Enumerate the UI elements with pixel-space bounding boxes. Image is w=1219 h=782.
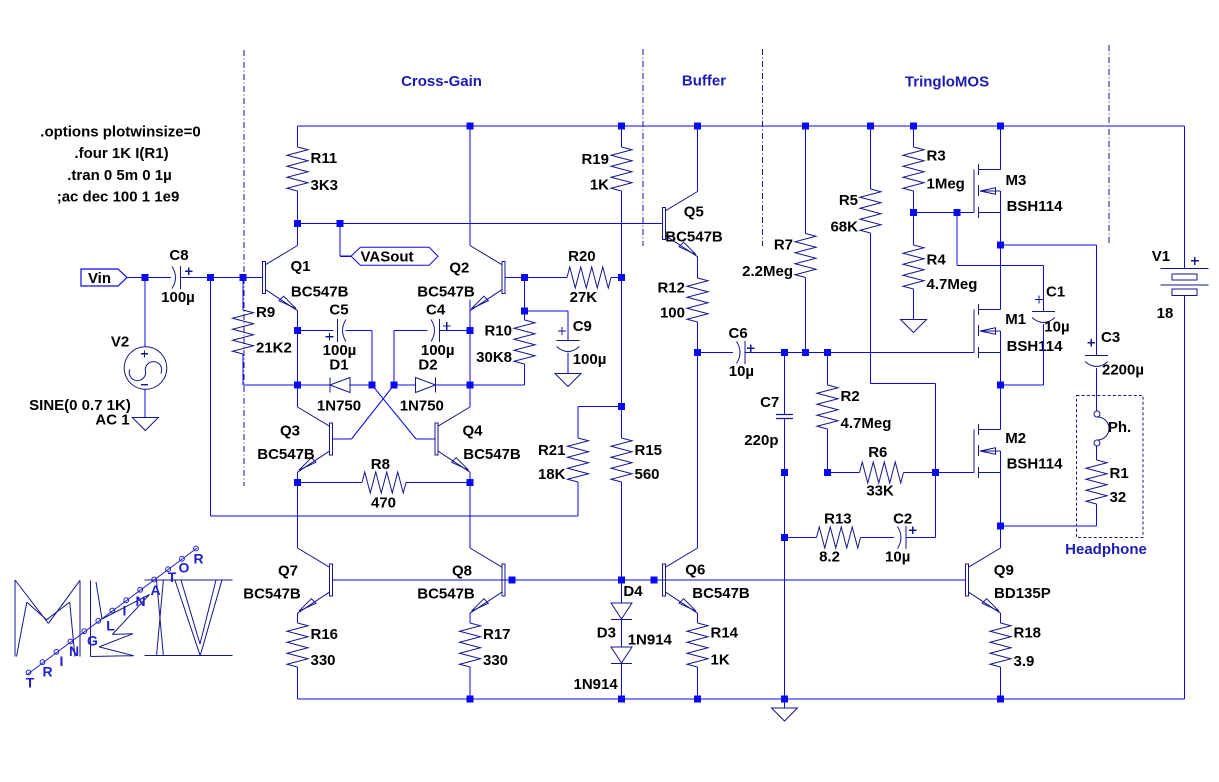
wire [297,331,299,386]
junction [618,123,625,130]
wire [621,620,623,648]
svg-text:Cross-Gain: Cross-Gain [401,73,482,90]
wire [784,353,786,415]
net flag Vin [81,269,127,287]
resistor R20 [567,248,611,306]
wire M3 gate line [914,212,975,214]
svg-text:N: N [135,593,145,609]
wire [469,667,471,699]
resistor R18 [990,623,1041,670]
wire [242,278,244,311]
svg-text:C7: C7 [760,394,779,411]
svg-text:Buffer: Buffer [682,73,726,90]
ground [132,418,158,431]
junction [802,349,809,356]
svg-text:BD135P: BD135P [994,585,1051,602]
svg-text:R19: R19 [581,151,609,168]
wire [469,472,471,482]
svg-text:BC547B: BC547B [692,585,750,602]
resistor R15 [611,438,662,483]
wire [371,331,373,386]
svg-text:1N914: 1N914 [573,676,618,693]
resistor R17 [460,623,511,669]
wire [1000,191,1002,310]
junction [781,696,788,703]
svg-text:BC547B: BC547B [291,284,349,301]
svg-text:.four 1K I(R1): .four 1K I(R1) [74,145,168,162]
wire [1000,613,1002,623]
wire [181,277,263,279]
svg-text:560: 560 [635,466,660,483]
resistor R9 [233,304,292,357]
svg-text:Q3: Q3 [280,423,300,440]
transistor Q9 [966,548,1051,613]
wire [936,472,975,474]
mosfet M1 [974,304,1063,358]
svg-text:C3: C3 [1101,329,1120,346]
wire [785,537,817,539]
ground [555,374,581,387]
svg-text:I: I [123,603,127,619]
svg-text:BC547B: BC547B [665,228,723,245]
junction [391,382,398,389]
svg-text:R15: R15 [635,442,663,459]
wire [469,126,471,246]
transistor Q8 [417,548,505,613]
wire [697,667,699,699]
svg-text:.options plotwinsize=0: .options plotwinsize=0 [40,124,200,141]
wire [393,331,395,386]
svg-text:100µ: 100µ [161,289,195,306]
svg-text:R20: R20 [568,248,596,265]
wire [406,482,470,484]
svg-text:1Meg: 1Meg [927,175,965,192]
wire [297,613,299,623]
wire [913,213,915,246]
transistor Q5 [663,192,723,257]
wire [784,538,786,700]
svg-text:R: R [193,551,203,567]
transistor Q3 [257,407,332,472]
svg-text:BC547B: BC547B [257,446,315,463]
svg-text:Q5: Q5 [684,204,704,221]
junction [509,577,516,584]
junction [618,696,625,703]
svg-text:10µ: 10µ [1044,319,1069,336]
wire [297,547,299,549]
svg-text:L: L [106,618,115,634]
svg-text:T: T [168,569,177,585]
svg-text:220p: 220p [744,432,778,449]
wire [505,277,525,279]
junction [932,469,939,476]
capacitor C9 [557,318,607,368]
svg-text:10µ: 10µ [729,363,754,380]
svg-text:O: O [179,560,190,576]
junction [369,382,376,389]
wire [784,473,786,538]
junction [781,349,788,356]
wire [297,191,299,224]
junction [910,123,917,130]
wire output base line [333,579,966,581]
diode D1 [317,357,361,415]
resistor R11 [287,147,338,194]
wire [621,580,623,603]
wire top supply rail [298,125,1185,127]
junction [781,469,788,476]
svg-text:D2: D2 [418,357,437,374]
svg-text:1N750: 1N750 [400,398,444,415]
wire [621,191,623,278]
wire [469,331,471,386]
svg-text:18: 18 [1157,305,1174,322]
wire [394,330,428,332]
svg-text:470: 470 [371,494,396,511]
svg-text:M3: M3 [1005,172,1026,189]
junction [521,308,528,315]
capacitor C5 [323,302,357,360]
headphone jack Ph. [1094,411,1131,446]
svg-text:27K: 27K [570,289,598,306]
svg-text:BC547B: BC547B [463,446,521,463]
svg-text:Q6: Q6 [685,561,705,578]
svg-text:BSH114: BSH114 [1007,456,1064,473]
wire [621,407,623,439]
svg-text:3.9: 3.9 [1014,653,1035,670]
wire [524,278,526,312]
junction [824,349,831,356]
svg-text:D3: D3 [597,625,616,642]
wire [621,482,623,580]
junction [618,577,625,584]
svg-text:R16: R16 [311,626,339,643]
svg-text:3K3: 3K3 [311,177,339,194]
junction [802,123,809,130]
svg-text:R1: R1 [1110,465,1129,482]
node Vin junction [142,274,149,281]
resistor R16 [287,623,338,669]
wire [1096,368,1098,411]
junction [294,220,301,227]
wire [1000,385,1002,430]
junction [651,577,658,584]
wire [935,384,937,538]
wire [211,515,579,517]
net flag VASout [351,247,438,265]
svg-text:100: 100 [660,304,685,321]
wire [469,300,471,331]
capacitor C3 [1085,329,1144,379]
headphone enclosure box [1077,396,1144,538]
wire [339,224,341,257]
junction [694,349,701,356]
wire [144,389,146,418]
svg-text:Q9: Q9 [994,562,1014,579]
diode D3 [573,625,632,693]
resistor R1 [1086,460,1129,506]
logo MK IV artwork [15,580,232,657]
svg-text:R17: R17 [483,626,511,643]
capacitor C7 [744,394,793,449]
wire [697,322,699,353]
svg-text:32: 32 [1110,489,1127,506]
voltage source V1 [1152,248,1209,322]
junction [618,403,625,410]
wire [913,289,915,320]
resistor R12 [657,278,708,322]
svg-text:R18: R18 [1014,624,1042,641]
wire [827,429,829,473]
junction [467,123,474,130]
svg-text:Q2: Q2 [449,259,469,276]
resistor R7 [742,234,816,281]
junction [207,274,214,281]
svg-text:Q4: Q4 [462,423,483,440]
svg-text:Q1: Q1 [290,258,310,275]
wire [524,364,526,385]
junction [997,123,1004,130]
wire [1184,296,1186,699]
wire [906,537,936,539]
svg-text:;ac dec 100 1 1e9: ;ac dec 100 1 1e9 [57,189,180,206]
resistor R13 [817,510,861,565]
logo TRINGLINATOR letters [26,551,204,691]
wire [697,126,699,192]
svg-text:4.7Meg: 4.7Meg [927,276,978,293]
svg-text:BSH114: BSH114 [1007,338,1064,355]
svg-text:A: A [150,582,160,598]
svg-text:Q8: Q8 [452,563,472,580]
svg-text:330: 330 [311,652,336,669]
svg-text:100µ: 100µ [573,351,607,368]
svg-text:30K8: 30K8 [476,349,512,366]
wire [297,483,299,549]
resistor R21 [538,438,589,483]
junction [294,479,301,486]
svg-text:M2: M2 [1005,430,1026,447]
resistor R5 [830,189,881,235]
wire bottom ground rail [298,698,1185,700]
wire [1043,324,1045,385]
wire [297,472,299,482]
diode D4 [611,583,673,649]
svg-text:2200µ: 2200µ [1102,362,1144,379]
junction [997,242,1004,249]
wire [784,419,786,473]
transistor Q7 [243,548,332,613]
wire [697,353,699,549]
wire [567,311,569,341]
svg-text:V1: V1 [1152,248,1170,265]
svg-text:R9: R9 [256,304,275,321]
wire [440,330,471,332]
svg-text:Q7: Q7 [278,563,298,580]
svg-text:68K: 68K [830,218,858,235]
transistor Q2 [417,246,505,311]
resistor R10 [476,320,535,366]
wire [524,311,526,320]
svg-text:Ph.: Ph. [1108,419,1131,436]
wire [469,483,471,549]
junction [954,209,961,216]
svg-text:G: G [87,633,98,649]
wire [144,278,146,347]
wire [297,385,299,407]
ground [901,320,927,333]
resistor R14 [687,623,739,669]
junction [997,523,1004,530]
wire [621,126,623,147]
wire [870,233,872,384]
svg-text:4.7Meg: 4.7Meg [841,415,892,432]
voltage source V2 [29,334,167,429]
junction [781,534,788,541]
wire [698,352,734,354]
wire [525,277,568,279]
svg-text:M1: M1 [1005,311,1026,328]
wire [297,311,299,331]
wire [127,277,171,279]
svg-text:C1: C1 [1046,284,1065,301]
wire [904,472,936,474]
svg-text:R3: R3 [927,148,946,165]
wire [697,257,699,278]
svg-text:R5: R5 [839,192,858,209]
wire [1096,446,1098,460]
wire [870,126,872,189]
wire [416,438,435,440]
svg-text:C8: C8 [169,247,188,264]
junction [294,382,301,389]
section separator line 2 [642,49,644,246]
wire [621,664,623,700]
wire [525,310,569,312]
svg-text:.tran 0 5m 0 1µ: .tran 0 5m 0 1µ [67,167,172,184]
junction [467,696,474,703]
svg-text:R11: R11 [311,150,338,167]
wire [298,330,334,332]
resistor R6 [860,444,904,500]
svg-text:33K: 33K [866,483,894,500]
svg-text:BC547B: BC547B [417,284,475,301]
capacitor C8 [161,247,195,306]
section separator line 1 [243,50,245,486]
svg-text:C4: C4 [426,302,446,319]
svg-text:R12: R12 [657,279,685,296]
wire [578,406,622,408]
svg-text:Vin: Vin [88,270,111,287]
wire [394,384,416,386]
wire [745,352,785,354]
wire [913,126,915,147]
wire [1001,525,1097,527]
capacitor C6 [729,325,755,380]
svg-text:R2: R2 [841,388,860,405]
wire VAS node [298,223,663,225]
svg-text:1N750: 1N750 [317,398,361,415]
wire [827,353,829,386]
wire [1001,244,1097,246]
svg-text:1N914: 1N914 [628,632,673,649]
transistor Q6 [663,548,750,613]
wire [697,613,699,623]
svg-text:R8: R8 [371,456,390,473]
svg-text:BC547B: BC547B [243,586,301,603]
junction [521,274,528,281]
junction [618,274,625,281]
svg-text:R: R [42,664,52,680]
wire [654,579,663,581]
svg-text:1K: 1K [590,177,609,194]
wire [470,384,525,386]
junction [694,123,701,130]
junction [467,479,474,486]
junction [997,382,1004,389]
svg-text:21K2: 21K2 [256,340,292,357]
wire [1043,266,1045,312]
junction [294,327,301,334]
junction [337,220,344,227]
svg-text:Headphone: Headphone [1065,541,1147,558]
wire [333,438,352,440]
wire [567,353,569,374]
svg-text:R21: R21 [538,442,566,459]
diode D2 [400,357,444,415]
wire [1001,384,1044,386]
svg-text:R6: R6 [868,444,887,461]
svg-text:18K: 18K [538,466,566,483]
mosfet M3 [974,164,1063,218]
resistor R19 [581,147,632,194]
svg-text:C9: C9 [573,318,592,335]
junction [694,696,701,703]
wire [871,383,936,385]
svg-text:D1: D1 [329,357,348,374]
resistor R3 [903,147,965,192]
logo banner line [26,546,198,675]
wire [621,278,623,407]
junction [910,209,917,216]
ground [772,708,798,721]
svg-text:8.2: 8.2 [819,549,840,566]
svg-text:R7: R7 [774,237,793,254]
svg-text:V2: V2 [111,334,129,351]
svg-text:BSH114: BSH114 [1007,198,1064,215]
wire [828,472,860,474]
wire [298,384,331,386]
junction [467,382,474,389]
svg-text:R14: R14 [711,625,739,642]
wire [340,255,351,257]
wire [1000,331,1002,385]
wire [1000,126,1002,170]
junction [997,696,1004,703]
svg-text:N: N [69,643,79,659]
wire [1000,451,1002,526]
wire [957,265,1044,267]
svg-text:10µ: 10µ [885,549,910,566]
resistor R8 [362,456,406,511]
wire [469,385,471,407]
wire [805,126,807,234]
mosfet M2 [974,424,1063,478]
section separator line 4 [1108,45,1110,244]
wire [784,699,786,708]
wire [861,537,895,539]
wire [577,482,579,516]
resistor R2 [817,385,891,432]
